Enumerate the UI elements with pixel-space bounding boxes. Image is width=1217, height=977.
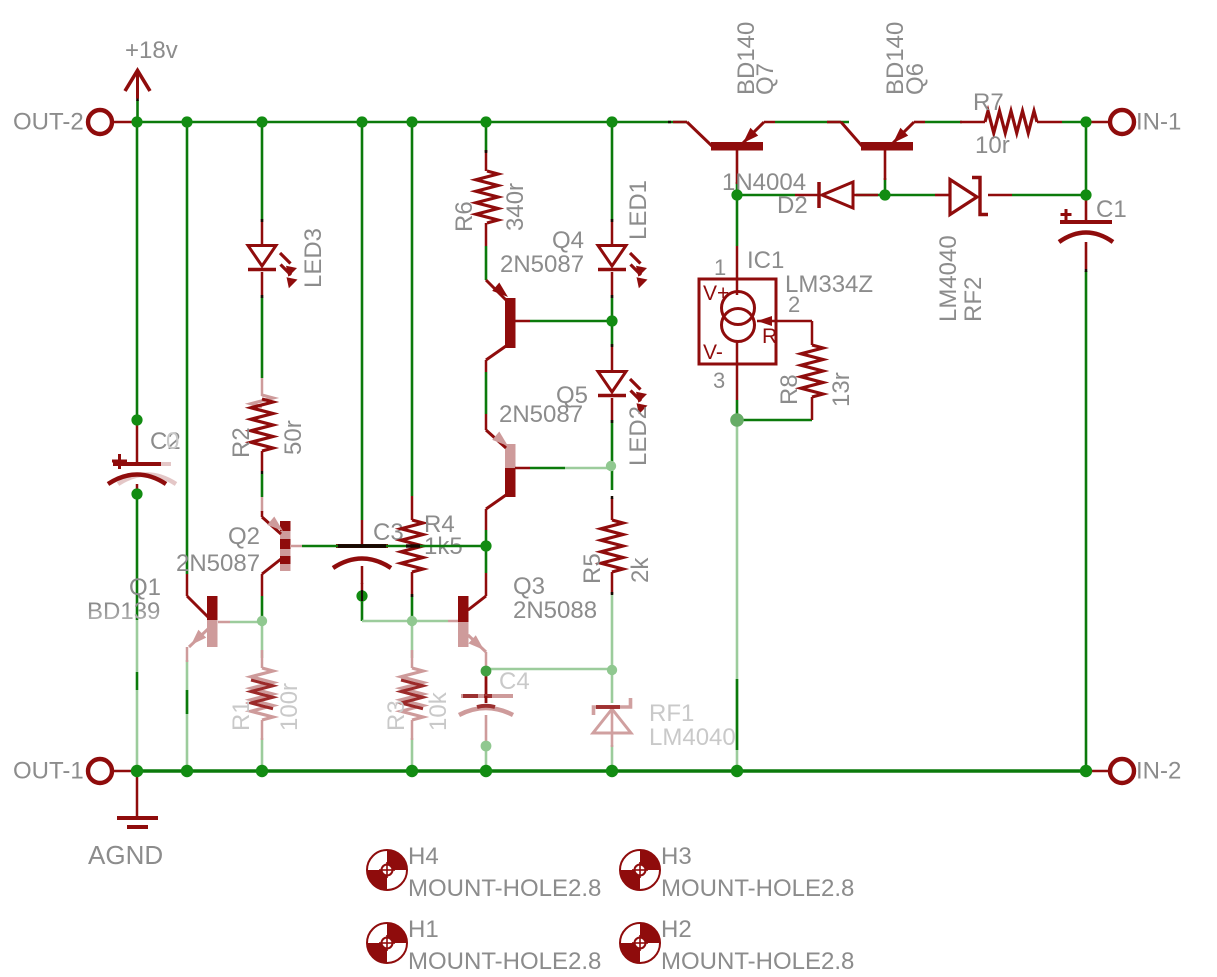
svg-text:100r: 100r: [276, 683, 303, 731]
svg-text:LM4040: LM4040: [649, 724, 736, 751]
svg-text:C3: C3: [373, 519, 404, 546]
mount hole H4: [367, 850, 407, 890]
resistor R3 core: [401, 680, 423, 709]
svg-text:D2: D2: [777, 192, 808, 219]
wire Q5 base to LED2 junction faded part: [565, 467, 612, 470]
svg-text:LM4040: LM4040: [935, 235, 962, 322]
transistor Q3: [448, 573, 486, 668]
wire R5 to RF1 node (faded): [611, 594, 614, 670]
resistor R8 labels: [776, 372, 855, 407]
junction dot Q1 base (faded): [257, 616, 267, 626]
svg-text:AGND: AGND: [88, 840, 163, 870]
svg-text:R7: R7: [973, 89, 1004, 116]
pin OUT-2: [88, 110, 137, 134]
svg-text:50r: 50r: [280, 420, 307, 455]
svg-text:Q4: Q4: [552, 227, 584, 254]
svg-text:OUT-1: OUT-1: [13, 758, 84, 785]
svg-text:IN-2: IN-2: [1136, 758, 1181, 785]
resistor R6 labels: [451, 183, 529, 232]
svg-text:MOUNT-HOLE2.8: MOUNT-HOLE2.8: [661, 875, 854, 902]
power +18v label: [125, 37, 178, 64]
wire Q4 base to LED1 junction: [530, 320, 612, 323]
junction dot bottom rail x=612: [606, 765, 618, 777]
pin tick LED3 top: [261, 219, 264, 222]
pin tick LED2 top: [611, 344, 614, 347]
junction dot LED2 bottom (faded): [606, 461, 616, 471]
LED LED3 label: [300, 228, 327, 288]
wire junction to Q3 base (faded): [412, 620, 448, 623]
resistor R3 labels: [383, 691, 452, 731]
wire Q1 emitter overlap: [186, 690, 189, 714]
pin tick C3 dot: [361, 590, 363, 601]
junction dot top rail x=612: [606, 116, 617, 127]
wire C3 dot down: [361, 596, 364, 621]
junction dot RF1 top (faded): [607, 665, 617, 675]
junction dot bottom rail x=187: [181, 765, 193, 777]
capacitor C1 label: [1096, 196, 1127, 223]
wire column C3 top: [361, 122, 364, 520]
svg-text:13r: 13r: [828, 372, 855, 407]
svg-text:0: 0: [166, 428, 179, 455]
junction dot C1 top: [1080, 189, 1091, 200]
transistor Q6: [827, 122, 925, 151]
svg-text:10k: 10k: [425, 691, 452, 731]
LED LED3: [248, 220, 296, 297]
svg-text:2: 2: [788, 292, 800, 317]
junction dot top rail x=362: [356, 116, 367, 127]
wire RF1 to rail (faded): [611, 745, 614, 771]
svg-text:2N5087: 2N5087: [500, 251, 584, 278]
svg-text:IC1: IC1: [747, 247, 784, 274]
ground AGND symbol: [117, 771, 158, 827]
pin tick R4 bottom: [411, 594, 414, 597]
svg-text:V+: V+: [703, 282, 729, 305]
svg-text:LED1: LED1: [625, 180, 652, 240]
pin tick LED3 bottom: [261, 295, 264, 298]
wire junction to R1 (faded): [261, 621, 264, 658]
resistor R4: [401, 496, 423, 596]
wire R8 bottom corner: [737, 419, 812, 422]
svg-text:C1: C1: [1096, 196, 1127, 223]
svg-text:C4: C4: [499, 668, 530, 695]
pin OUT-1 label: [13, 758, 84, 785]
resistor R6: [476, 150, 498, 246]
svg-text:Q6: Q6: [902, 63, 929, 95]
resistor R1 core: [251, 680, 273, 709]
svg-text:LED2: LED2: [625, 406, 652, 466]
wire IC1 pin3 bottom: [736, 400, 739, 420]
op-amp IC1 LM334Z box: [699, 246, 812, 400]
junction dot top rail x=412: [406, 116, 417, 127]
pin IN-1 label: [1136, 109, 1181, 136]
wire Q7 base junction D2: [736, 150, 739, 195]
svg-text:MOUNT-HOLE2.8: MOUNT-HOLE2.8: [408, 948, 601, 975]
mount hole H4 labels: [408, 843, 601, 902]
wire Q4 collector to Q5 emitter: [485, 372, 488, 414]
wire column C2 faded segment 2: [136, 690, 139, 771]
svg-text:R: R: [762, 325, 777, 348]
svg-text:2N5088: 2N5088: [513, 597, 597, 624]
pin IN-2 label: [1136, 758, 1181, 785]
junction dot IN-1: [1080, 116, 1091, 127]
transistor Q6 labels: [882, 22, 929, 95]
wire RF2 to C1 junction: [1012, 194, 1086, 197]
wire column R4 top: [411, 122, 414, 496]
capacitor C3 plate overlap on wire: [338, 544, 386, 548]
wire column LED3 top: [261, 122, 264, 220]
svg-text:BD139: BD139: [87, 598, 160, 625]
pin tick Q7 rail: [668, 121, 671, 124]
capacitor C3 label: [373, 519, 404, 546]
svg-text:H4: H4: [408, 843, 439, 870]
wire Q3 emitter node to rail (faded): [485, 741, 488, 771]
resistor R5: [601, 498, 623, 594]
wire top rail OUT-2 to Q7: [137, 121, 687, 124]
LED LED2: [598, 346, 646, 420]
wire D2 to Q6 base node: [856, 194, 885, 197]
transistor Q7: [673, 122, 775, 151]
wire Q5 base to LED2 junction: [530, 467, 565, 470]
zener RF1 ghost LM4040: [593, 698, 631, 747]
wire IC1 node overlap: [736, 679, 739, 750]
transistor Q4 labels: [500, 227, 584, 278]
junction dot C2 bottom: [131, 488, 142, 499]
svg-text:340r: 340r: [502, 183, 529, 231]
capacitor C2: [108, 420, 166, 492]
junction dot C3 bottom: [356, 590, 367, 601]
transistor Q1 labels: [87, 574, 161, 625]
mount hole H1: [367, 923, 407, 963]
diode D2 1N4004: [795, 182, 878, 208]
junction dot D2 right: [879, 189, 890, 200]
resistor R2: [251, 399, 273, 497]
svg-text:Q2: Q2: [228, 523, 260, 550]
LED LED2 label: [625, 406, 652, 466]
junction dot top rail x=486: [480, 116, 491, 127]
svg-text:H2: H2: [661, 916, 692, 943]
wire IC1 pin1 top: [736, 195, 739, 246]
svg-text:MOUNT-HOLE2.8: MOUNT-HOLE2.8: [408, 875, 601, 902]
svg-text:IN-1: IN-1: [1136, 109, 1181, 136]
svg-text:2N5087: 2N5087: [176, 550, 260, 577]
resistor R8: [801, 321, 823, 420]
zener RF2 labels: [935, 235, 987, 322]
junction dot bottom rail x=486: [480, 765, 492, 777]
pin 2 label IC1: [788, 292, 800, 317]
capacitor C3: [333, 520, 391, 584]
svg-text:RF2: RF2: [960, 277, 987, 322]
wire column C2 dark segment: [136, 672, 139, 690]
svg-text:Q7: Q7: [752, 63, 779, 95]
wire RF1 node to zener (faded): [611, 670, 614, 703]
wire D2 node left: [737, 194, 795, 197]
mount hole H3 labels: [661, 843, 854, 902]
wire column R6 top: [485, 122, 488, 152]
wire top rail Q7 to Q6: [775, 121, 849, 124]
wire Q6 base lead: [884, 150, 887, 180]
wire column LED1 top: [611, 122, 614, 220]
wire junction to R3 (faded): [411, 621, 414, 658]
svg-text:R3: R3: [383, 700, 410, 731]
wire R1 to rail (faded): [261, 738, 264, 771]
pin tick LED1 bottom: [611, 295, 614, 298]
wire D2 node to RF2: [885, 194, 935, 197]
pin 3 label IC1: [713, 368, 725, 393]
wire R6 to Q4 emitter: [485, 246, 488, 280]
op-amp IC1 labels: [747, 247, 873, 298]
svg-text:R2: R2: [228, 427, 255, 458]
wire top rail Q6 to R7: [925, 121, 962, 124]
pin tick R5 top: [611, 496, 614, 499]
transistor Q5 labels: [499, 382, 588, 428]
svg-text:R6: R6: [451, 201, 478, 232]
mount hole H1 labels: [408, 916, 601, 975]
svg-text:R1: R1: [228, 700, 255, 731]
pin OUT-1: [88, 759, 137, 783]
ground AGND label: [88, 840, 163, 870]
wire C4 node to RF1 node (faded): [486, 668, 612, 671]
wire column C2 top: [136, 122, 139, 420]
wire +18v stem: [136, 100, 139, 122]
svg-text:MOUNT-HOLE2.8: MOUNT-HOLE2.8: [661, 948, 854, 975]
transistor Q3 labels: [513, 573, 597, 624]
pin OUT-2 label: [13, 109, 84, 136]
zener RF1 labels: [649, 700, 736, 751]
junction dot LED1 bottom: [606, 315, 617, 326]
wire R3 to rail (faded): [411, 738, 414, 771]
wire R4 bottom to junction: [411, 596, 414, 621]
capacitor C4 label: [499, 668, 530, 695]
wire crossing R4 overlap: [406, 544, 420, 547]
capacitor C2 label: [150, 428, 181, 455]
transistor Q2 labels: [176, 523, 260, 577]
pin tick LED1 top: [611, 219, 614, 222]
resistor R7: [960, 111, 1062, 133]
capacitor C4 extra ghost dot: [481, 741, 492, 752]
junction dot bottom rail x=262: [256, 765, 268, 777]
svg-text:+18v: +18v: [125, 37, 178, 64]
svg-text:R5: R5: [579, 553, 606, 584]
junction dot top rail x=262: [256, 116, 267, 127]
pin tick LED2 bottom: [611, 420, 614, 423]
wire IN-1 junction down to C1 junction: [1085, 122, 1088, 195]
resistor R4 labels: [424, 511, 463, 560]
wire bottom rail: [137, 769, 1086, 773]
wire C1 column down to rail: [1085, 271, 1088, 771]
junction dot bottom rail x=137: [131, 765, 143, 777]
junction dot R3 top (faded): [407, 616, 417, 626]
transistor Q2: [262, 511, 486, 596]
mount hole H3: [620, 850, 660, 890]
wire C3 corner to R3 junction (faded): [362, 620, 412, 623]
pin tick R5 bottom: [611, 592, 614, 595]
svg-text:2k: 2k: [627, 557, 654, 583]
mount hole H2 labels: [661, 916, 854, 975]
wire Q6 base: [884, 178, 887, 195]
svg-text:OUT-2: OUT-2: [13, 109, 84, 136]
junction dot bottom rail x=737: [731, 765, 743, 777]
capacitor C4 ghost: [459, 674, 513, 741]
wire top rail R7 to IN-1 junction: [1062, 121, 1086, 124]
svg-text:V-: V-: [703, 341, 723, 364]
wire junction to LED2: [611, 321, 614, 346]
wire IC1 node down to rail (faded): [736, 425, 739, 771]
svg-text:1: 1: [714, 255, 726, 280]
resistor R1 ghost: [251, 650, 273, 740]
junction dot Q2 base wire: [480, 540, 491, 551]
transistor Q7 labels: [733, 22, 779, 95]
junction dot Q3 emitter node (faded): [481, 666, 492, 677]
resistor R7 labels: [973, 89, 1010, 159]
capacitor C2 ghost: [118, 464, 176, 484]
transistor Q5: [486, 414, 530, 530]
svg-text:R8: R8: [776, 374, 803, 405]
wire column C2 bottom to OUT-1 rail: [136, 490, 139, 620]
zener RF2 LM4040: [935, 178, 1012, 215]
resistor R2 ghost: [251, 378, 273, 512]
pin tick R6 top: [485, 150, 488, 153]
resistor R3 ghost: [401, 650, 423, 740]
wire Q2 collector to junction: [261, 596, 264, 621]
wire LED3 to R2: [261, 297, 264, 378]
svg-text:Q1: Q1: [129, 574, 161, 601]
pin IN-1: [1086, 110, 1134, 134]
wire Q5 collector to junction: [485, 530, 488, 573]
svg-text:Q3: Q3: [513, 573, 545, 600]
wire LED2 to junction: [611, 420, 614, 462]
junction dot bottom rail x=1086: [1080, 765, 1092, 777]
svg-text:3: 3: [713, 368, 725, 393]
wire column Q1 collector: [186, 122, 189, 574]
pin 1 label IC1: [714, 255, 726, 280]
wire column C2 faded segment: [136, 620, 139, 672]
svg-text:10r: 10r: [975, 132, 1010, 159]
transistor Q1: [187, 574, 262, 662]
junction dot top rail x=137: [131, 116, 142, 127]
resistor R2 labels: [228, 420, 307, 458]
LED LED1 label: [625, 180, 652, 240]
mount hole H2: [620, 923, 660, 963]
junction dot D2 left: [731, 189, 742, 200]
svg-text:RF1: RF1: [649, 700, 694, 727]
wire LED1 to junction: [611, 298, 614, 321]
transistor Q4: [486, 280, 530, 372]
junction dot bottom rail x=412: [406, 765, 418, 777]
svg-text:2N5087: 2N5087: [499, 401, 583, 428]
resistor R1 labels: [228, 683, 303, 731]
svg-text:H3: H3: [661, 843, 692, 870]
wire LED2 junction to R5: [611, 468, 614, 490]
junction dot C2 top: [131, 414, 142, 425]
svg-text:LED3: LED3: [300, 228, 327, 288]
svg-text:H1: H1: [408, 916, 439, 943]
junction dot top rail x=187: [181, 116, 192, 127]
diode D2 labels: [722, 169, 808, 219]
wire C3 bottom lead to dot: [361, 583, 364, 596]
junction dot IC1 bottom: [730, 413, 744, 427]
capacitor C1: [1059, 195, 1113, 272]
pin IN-2: [1086, 759, 1134, 783]
resistor R5 labels: [579, 553, 654, 584]
LED LED1: [598, 220, 646, 298]
wire Q1 emitter to rail (faded): [186, 660, 189, 771]
power +18v arrow symbol: [125, 71, 150, 102]
